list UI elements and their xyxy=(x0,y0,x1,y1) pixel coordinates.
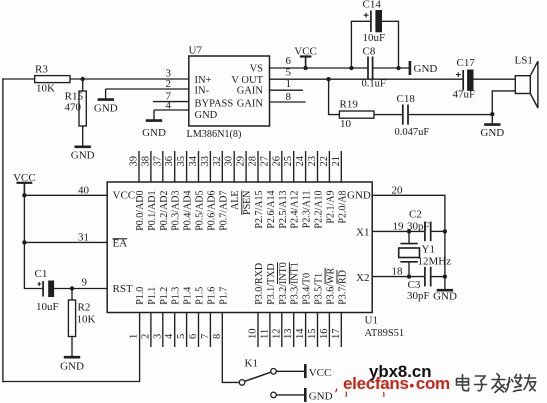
P3.6/WR overline xyxy=(324,268,326,284)
node speaker return junction xyxy=(490,112,494,116)
svg-text:30: 30 xyxy=(224,156,235,167)
svg-text:P2.6/A14: P2.6/A14 xyxy=(266,191,277,229)
node rail X1 xyxy=(443,229,447,233)
ground crystal rail xyxy=(437,289,453,292)
PSEN overline xyxy=(241,191,243,215)
U1 pin 8 wire to switch K1 xyxy=(222,313,239,383)
U7 pin 2 wire IN- xyxy=(106,88,189,90)
svg-text:23: 23 xyxy=(307,156,318,167)
node C14 right leg xyxy=(396,66,400,70)
svg-text:5: 5 xyxy=(286,67,292,79)
wire K1 lower to GND xyxy=(276,394,305,396)
U7 pin 6 wire VS xyxy=(270,67,369,69)
svg-text:R19: R19 xyxy=(340,99,359,111)
capacitor C2 30pF xyxy=(424,222,426,242)
svg-text:10K: 10K xyxy=(77,314,96,326)
node pin31 junction xyxy=(22,240,26,244)
svg-text:1: 1 xyxy=(129,334,140,339)
U1 top pin 22 wire xyxy=(328,151,330,182)
svg-text:8: 8 xyxy=(286,91,292,103)
svg-text:GND: GND xyxy=(142,127,166,139)
svg-text:GND: GND xyxy=(433,291,457,303)
svg-text:17: 17 xyxy=(331,329,342,340)
svg-text:0.1uF: 0.1uF xyxy=(362,79,386,90)
U1 top pin 36 wire xyxy=(174,151,176,182)
U1 bottom pin 5 wire xyxy=(186,313,188,348)
svg-text:19: 19 xyxy=(393,221,405,233)
svg-text:U7: U7 xyxy=(189,45,203,57)
svg-text:13: 13 xyxy=(283,329,294,340)
svg-text:27: 27 xyxy=(259,156,270,167)
op-amp U7 LM386N1(8) body xyxy=(189,56,270,126)
svg-text:C1: C1 xyxy=(35,268,48,280)
svg-text:P3.1/TXD: P3.1/TXD xyxy=(266,263,277,304)
svg-text:Y1: Y1 xyxy=(422,244,435,256)
svg-text:10: 10 xyxy=(340,118,352,130)
svg-text:P1.0: P1.0 xyxy=(135,287,146,305)
svg-text:10: 10 xyxy=(248,329,259,340)
svg-text:com: com xyxy=(416,374,450,393)
svg-text:IN-: IN- xyxy=(195,86,210,97)
wire C17 to speaker xyxy=(473,78,515,80)
svg-text:GND: GND xyxy=(347,190,371,202)
U1 bottom pin 3 wire xyxy=(162,313,164,348)
svg-text:P1.2: P1.2 xyxy=(159,287,170,305)
watermark chinese char dian xyxy=(457,375,469,391)
svg-text:K1: K1 xyxy=(245,358,258,370)
node RST junction xyxy=(70,286,74,290)
svg-text:14: 14 xyxy=(295,328,306,339)
U7 pin 4 wire GND xyxy=(154,109,189,111)
U1 top pin 25 wire xyxy=(293,151,295,182)
svg-text:IN+: IN+ xyxy=(195,75,212,86)
svg-text:GND: GND xyxy=(71,150,95,162)
svg-text:P1.6: P1.6 xyxy=(206,287,217,305)
U7 pin 1 stub GAIN xyxy=(270,89,304,91)
svg-text:P0.2/AD2: P0.2/AD2 xyxy=(159,191,170,231)
svg-text:P3.6/WR: P3.6/WR xyxy=(325,268,336,305)
svg-text:30pF: 30pF xyxy=(407,221,430,233)
svg-text:X2: X2 xyxy=(356,272,369,284)
svg-text:26: 26 xyxy=(271,156,282,167)
node junction R3/R15/IN+ xyxy=(81,77,85,81)
U1 bottom pin 11 wire xyxy=(269,313,271,348)
svg-text:X1: X1 xyxy=(356,227,369,239)
P3.2/INT0 overline xyxy=(277,262,279,284)
svg-text:37: 37 xyxy=(152,156,163,167)
capacitor C8 0.1uF xyxy=(367,57,369,80)
watermark chinese char fa xyxy=(492,374,506,393)
svg-text:4: 4 xyxy=(164,333,175,339)
svg-text:RST: RST xyxy=(113,283,133,295)
watermark chinese char you xyxy=(524,375,536,391)
svg-text:P0.4/AD4: P0.4/AD4 xyxy=(183,191,194,231)
U7 pin 5 wire V OUT xyxy=(270,78,463,80)
node C14 left leg xyxy=(349,66,353,70)
ground U7 pin2 xyxy=(105,89,107,99)
U1 top pin 39 wire xyxy=(138,151,140,182)
svg-text:R3: R3 xyxy=(35,64,48,76)
svg-text:P0.1/AD1: P0.1/AD1 xyxy=(147,191,158,231)
svg-text:2: 2 xyxy=(166,78,172,90)
U1 top pin 28 wire xyxy=(257,151,259,182)
svg-text:P3.7/RD: P3.7/RD xyxy=(337,270,348,305)
svg-text:P2.4/A12: P2.4/A12 xyxy=(290,191,301,229)
wire speaker return xyxy=(492,91,515,124)
wire R3 left xyxy=(2,78,34,80)
svg-text:16: 16 xyxy=(319,329,330,340)
svg-text:38: 38 xyxy=(140,156,151,167)
resistor R2 10K xyxy=(71,289,73,301)
svg-text:C18: C18 xyxy=(397,93,416,105)
svg-text:C14: C14 xyxy=(363,0,382,11)
svg-text:18: 18 xyxy=(392,266,404,278)
watermark chinese char shao xyxy=(506,375,523,392)
svg-text:V OUT: V OUT xyxy=(231,75,263,86)
node output junction xyxy=(326,77,330,81)
U1 bottom pin 15 wire xyxy=(317,313,319,348)
svg-text:39: 39 xyxy=(129,156,140,167)
svg-text:P0.3/AD3: P0.3/AD3 xyxy=(171,191,182,231)
capacitor C3 30pF xyxy=(424,267,426,287)
svg-text:0.047uF: 0.047uF xyxy=(395,127,430,138)
svg-text:LS1: LS1 xyxy=(515,55,533,67)
svg-text:U1: U1 xyxy=(365,315,378,327)
svg-text:12: 12 xyxy=(271,329,282,340)
U1 bottom pin 16 wire xyxy=(328,313,330,348)
U1 top pin 23 wire xyxy=(317,151,319,182)
svg-text:P3.0/RXD: P3.0/RXD xyxy=(254,263,265,305)
U1 top pin 27 wire xyxy=(269,151,271,182)
svg-text:8: 8 xyxy=(212,334,223,339)
svg-text:C8: C8 xyxy=(363,46,376,58)
U1 bottom pin 14 wire xyxy=(305,313,307,348)
crystal Y1 12MHz xyxy=(408,231,410,243)
svg-text:GND: GND xyxy=(480,127,504,139)
U1 pin 20 wire GND xyxy=(372,195,445,289)
svg-text:12MHz: 12MHz xyxy=(418,256,452,268)
U1 bottom pin 2 wire xyxy=(150,313,152,348)
node X2 junction xyxy=(407,274,411,278)
capacitor C14 10uF electrolytic xyxy=(370,11,372,32)
svg-text:29: 29 xyxy=(236,156,247,167)
svg-text:GAIN: GAIN xyxy=(237,99,264,110)
switch K1 lower contact xyxy=(271,392,277,398)
svg-text:P2.0/A8: P2.0/A8 xyxy=(337,191,348,224)
ground R15 xyxy=(75,146,91,149)
U1 bottom pin 17 wire xyxy=(340,313,342,348)
U1 bottom pin 7 wire xyxy=(209,313,211,348)
svg-text:AT89S51: AT89S51 xyxy=(365,328,405,339)
U1 top pin 35 wire xyxy=(186,151,188,182)
svg-text:ALE: ALE xyxy=(230,191,241,210)
capacitor C17 47uF electrolytic xyxy=(462,70,464,90)
svg-text:GND: GND xyxy=(94,103,118,115)
U1 pin 40 wire VCC xyxy=(24,194,107,196)
U1 top pin 34 wire xyxy=(198,151,200,182)
svg-text:P0.0/AD0: P0.0/AD0 xyxy=(135,191,146,231)
U1 pin 1 wire to bottom rail xyxy=(139,313,141,383)
svg-text:P3.3/INT1: P3.3/INT1 xyxy=(290,262,301,305)
IC U1 AT89S51 body xyxy=(107,182,372,313)
U1 bottom pin 6 wire xyxy=(198,313,200,348)
svg-text:33: 33 xyxy=(200,156,211,167)
capacitor C1 10uF electrolytic xyxy=(42,281,44,297)
svg-text:LM386N1(8): LM386N1(8) xyxy=(187,129,242,140)
U1 pin 18 wire X2 xyxy=(372,276,424,278)
U1 top pin 21 wire xyxy=(340,151,342,182)
node X1 junction xyxy=(407,229,411,233)
svg-text:GND: GND xyxy=(195,110,218,121)
power VCC terminal K1 xyxy=(304,364,307,378)
svg-text:28: 28 xyxy=(248,156,259,167)
svg-text:P1.5: P1.5 xyxy=(195,287,206,305)
svg-text:VCC: VCC xyxy=(113,190,136,202)
svg-text:20: 20 xyxy=(392,185,404,197)
svg-text:GAIN: GAIN xyxy=(237,86,264,97)
svg-text:9: 9 xyxy=(82,277,88,289)
wire C8 to ground xyxy=(373,67,410,69)
svg-text:P0.7/AD7: P0.7/AD7 xyxy=(218,191,229,231)
U1 pin 31 wire EA xyxy=(24,241,107,243)
svg-text:15: 15 xyxy=(307,329,318,340)
ground terminal K1 xyxy=(304,388,307,402)
ground R2 xyxy=(64,356,80,359)
U1 bottom pin 13 wire xyxy=(293,313,295,348)
svg-text:6: 6 xyxy=(188,334,199,339)
U1 top pin 32 wire xyxy=(221,151,223,182)
U1 top pin 37 wire xyxy=(162,151,164,182)
ground terminal after C8 xyxy=(409,61,412,75)
U1 top pin 24 wire xyxy=(305,151,307,182)
svg-text:7: 7 xyxy=(200,334,211,339)
resistor R3 xyxy=(35,76,70,83)
wire R2 to ground xyxy=(71,337,73,357)
svg-text:10uF: 10uF xyxy=(36,301,59,313)
svg-text:2: 2 xyxy=(140,334,151,339)
wire VCC rail down xyxy=(23,195,25,242)
svg-text:C17: C17 xyxy=(457,57,476,69)
svg-text:11: 11 xyxy=(259,329,270,339)
svg-text:10K: 10K xyxy=(36,83,55,95)
U1 top pin 38 wire xyxy=(150,151,152,182)
svg-text:P2.2/A10: P2.2/A10 xyxy=(314,191,325,229)
ground U7 pin4 xyxy=(153,110,155,120)
svg-text:22: 22 xyxy=(319,156,330,167)
wire R15 to ground xyxy=(82,126,84,146)
svg-text:24: 24 xyxy=(295,155,306,166)
wire R3 to U7 pin3 xyxy=(70,78,189,80)
svg-text:47uF: 47uF xyxy=(453,89,476,101)
P3.3/INT1 overline xyxy=(288,262,290,284)
svg-text:GND: GND xyxy=(60,361,84,373)
svg-text:P0.5/AD5: P0.5/AD5 xyxy=(195,191,206,231)
U1 top pin 30 wire xyxy=(233,151,235,182)
svg-text:GND: GND xyxy=(309,391,333,403)
wire output to R19 xyxy=(329,79,340,114)
svg-text:P1.4: P1.4 xyxy=(183,287,194,305)
wire C3 to rail xyxy=(431,276,445,278)
svg-text:VCC: VCC xyxy=(309,367,332,379)
svg-text:1: 1 xyxy=(286,78,292,90)
svg-text:C2: C2 xyxy=(409,209,422,221)
svg-text:4: 4 xyxy=(166,100,172,112)
svg-text:P3.5/T1: P3.5/T1 xyxy=(314,273,325,305)
svg-text:40: 40 xyxy=(78,185,90,197)
svg-text:35: 35 xyxy=(176,156,187,167)
svg-text:P2.1/A9: P2.1/A9 xyxy=(325,191,336,224)
U1 bottom pin 4 wire xyxy=(174,313,176,348)
wire rail down to C1 xyxy=(24,242,42,288)
svg-text:P0.6/AD6: P0.6/AD6 xyxy=(206,191,217,231)
svg-text:21: 21 xyxy=(331,156,342,167)
svg-text:P2.5/A13: P2.5/A13 xyxy=(278,191,289,229)
U1 top pin 29 wire xyxy=(245,151,247,182)
svg-text:34: 34 xyxy=(188,155,199,166)
svg-text:P3.2/INT0: P3.2/INT0 xyxy=(278,262,289,305)
svg-text:10uF: 10uF xyxy=(363,32,386,44)
svg-text:PSEN: PSEN xyxy=(242,191,253,215)
svg-text:30pF: 30pF xyxy=(407,290,430,302)
switch K1 upper contact xyxy=(271,369,277,375)
svg-text:P1.7: P1.7 xyxy=(218,287,229,305)
svg-text:GND: GND xyxy=(414,63,438,75)
wire bottom rail xyxy=(2,381,139,383)
U1 top pin 33 wire xyxy=(209,151,211,182)
svg-text:36: 36 xyxy=(164,156,175,167)
wire K1 to VCC xyxy=(276,370,305,372)
capacitor C18 0.047uF xyxy=(402,105,404,125)
U7 pin 7 stub BYPASS xyxy=(153,101,189,103)
U1 bottom pin 10 wire xyxy=(257,313,259,348)
svg-text:P2.3/A11: P2.3/A11 xyxy=(302,191,313,229)
svg-text:P1.3: P1.3 xyxy=(171,287,182,305)
U7 pin 8 stub GAIN xyxy=(270,101,306,103)
P3.7/RD overline xyxy=(336,270,338,284)
wire R19 to C18 xyxy=(374,114,402,116)
svg-text:elecfans: elecfans xyxy=(343,374,409,393)
ground speaker xyxy=(484,123,500,126)
switch K1 lever xyxy=(245,372,271,381)
U1 top pin 26 wire xyxy=(281,151,283,182)
svg-text:5: 5 xyxy=(176,334,187,339)
resistor R19 10 xyxy=(339,111,374,118)
wire C14 loop xyxy=(351,21,398,68)
node rail X2 xyxy=(443,274,447,278)
node VCC/pin40 xyxy=(22,193,26,197)
watermark chinese char zi xyxy=(475,376,487,391)
svg-text:6: 6 xyxy=(286,55,292,67)
svg-text:31: 31 xyxy=(78,232,89,244)
svg-text:32: 32 xyxy=(212,156,223,167)
svg-text:BYPASS: BYPASS xyxy=(195,99,234,110)
svg-text:R2: R2 xyxy=(78,302,91,314)
svg-text:25: 25 xyxy=(283,156,294,167)
U1 pin 19 wire X1 xyxy=(372,230,424,232)
svg-text:3: 3 xyxy=(152,334,163,339)
svg-text:VS: VS xyxy=(250,64,264,75)
svg-text:P3.4/T0: P3.4/T0 xyxy=(302,273,313,305)
wire C18 to ground junction xyxy=(408,114,492,116)
wire C2 to rail xyxy=(431,230,445,232)
svg-text:P1.1: P1.1 xyxy=(147,287,158,305)
wire C1 to RST xyxy=(54,288,108,290)
U1 bottom pin 12 wire xyxy=(281,313,283,348)
wire left rail xyxy=(2,78,4,382)
svg-text:P2.7/A15: P2.7/A15 xyxy=(254,191,265,229)
svg-text:470: 470 xyxy=(65,102,82,114)
resistor R15 470 xyxy=(82,79,84,91)
